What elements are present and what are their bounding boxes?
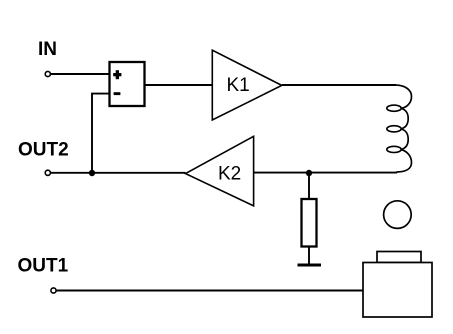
wire junction to resistor R1 — [308, 173, 310, 199]
terminal IN — [45, 71, 50, 76]
wire IN to summing block + input — [51, 73, 109, 75]
op-amp K1 — [212, 50, 281, 120]
wire K1 output to coil — [282, 84, 396, 86]
minus sign — [114, 92, 121, 95]
wire K2 output to OUT2 — [51, 172, 186, 174]
summing block (comparator) — [110, 62, 145, 106]
svg-text:IN: IN — [38, 39, 57, 60]
svg-text:OUT2: OUT2 — [18, 140, 69, 161]
terminal OUT2 — [45, 170, 50, 175]
inductor L1 coil body — [395, 85, 412, 172]
wire OUT1 to relay — [56, 290, 363, 292]
wire coil bottom to junction and K2 input — [254, 172, 398, 174]
wire summing block to K1 — [145, 84, 213, 86]
wire OUT2 feedback vertical to - input — [92, 94, 109, 173]
inductor loop 1 — [387, 105, 401, 111]
op-amp K2 (pointing left) — [186, 136, 254, 206]
wire resistor to ground — [308, 247, 310, 266]
plus sign — [113, 70, 121, 79]
inductor loop 2 — [387, 126, 401, 132]
junction at resistor — [306, 170, 312, 176]
junction at OUT2 feedback — [89, 170, 95, 176]
ground — [298, 264, 322, 267]
lamp / indicator circle — [384, 201, 412, 229]
inductor loop 3 — [387, 146, 401, 152]
resistor R1 — [302, 199, 317, 247]
terminal OUT1 — [51, 288, 56, 293]
svg-text:OUT1: OUT1 — [18, 256, 69, 277]
svg-text:K1: K1 — [227, 75, 250, 96]
relay button top — [377, 252, 421, 263]
relay body — [363, 263, 432, 318]
svg-text:K2: K2 — [218, 164, 241, 185]
